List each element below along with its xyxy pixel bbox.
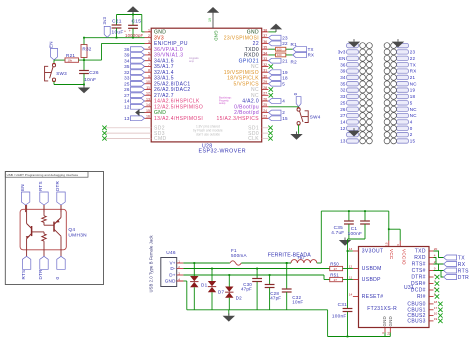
svg-text:15/A2.3/HSPICS: 15/A2.3/HSPICS (216, 116, 259, 122)
svg-text:EN: EN (20, 184, 25, 191)
svg-text:12: 12 (349, 265, 353, 269)
svg-text:6: 6 (148, 57, 150, 61)
svg-text:ESP32-WROVER: ESP32-WROVER (199, 148, 247, 154)
svg-text:13/A2.4/HSPIMOSI: 13/A2.4/HSPIMOSI (154, 116, 203, 122)
svg-text:35: 35 (263, 46, 267, 50)
svg-text:VCCIO: VCCIO (401, 249, 406, 265)
svg-text:VCC: VCC (389, 249, 394, 260)
svg-text:34: 34 (263, 51, 267, 55)
svg-text:19: 19 (282, 70, 288, 75)
svg-text:R1: R1 (291, 42, 298, 47)
svg-text:setup: setup (219, 101, 226, 105)
svg-text:32: 32 (340, 88, 346, 93)
svg-text:16: 16 (146, 115, 150, 119)
svg-text:NC: NC (410, 113, 417, 118)
svg-text:10nF: 10nF (84, 77, 96, 83)
svg-text:D7: D7 (218, 289, 225, 294)
svg-text:39: 39 (340, 69, 346, 74)
svg-text:100nF: 100nF (332, 314, 347, 319)
svg-text:UMH3N: UMH3N (68, 233, 87, 239)
svg-text:35: 35 (340, 81, 346, 86)
svg-text:100: 100 (277, 53, 282, 57)
svg-text:27: 27 (263, 92, 267, 96)
svg-text:2: 2 (282, 110, 285, 115)
svg-text:DCD#: DCD# (411, 288, 426, 294)
svg-text:U46: U46 (166, 250, 176, 256)
svg-text:32: 32 (124, 70, 130, 75)
svg-text:EN: EN (339, 56, 346, 61)
svg-text:10k: 10k (68, 59, 73, 63)
svg-text:10nF: 10nF (292, 300, 303, 305)
svg-text:15: 15 (282, 116, 288, 121)
svg-text:23: 23 (282, 35, 288, 40)
svg-text:500mA: 500mA (231, 253, 247, 258)
svg-text:5: 5 (282, 81, 285, 86)
svg-text:27: 27 (334, 267, 338, 271)
svg-text:30: 30 (263, 74, 267, 78)
svg-text:21: 21 (410, 75, 416, 80)
svg-text:TX: TX (308, 47, 314, 52)
svg-text:GND: GND (214, 31, 219, 41)
svg-text:5: 5 (410, 100, 413, 105)
svg-text:10000pF: 10000pF (125, 33, 144, 38)
svg-text:C21: C21 (112, 19, 122, 25)
svg-text:TX: TX (410, 62, 416, 67)
svg-text:3v3: 3v3 (102, 16, 107, 24)
svg-text:15: 15 (385, 242, 389, 246)
svg-text:27: 27 (124, 93, 130, 98)
svg-text:DTR#: DTR# (411, 275, 425, 281)
svg-text:11: 11 (146, 86, 150, 90)
svg-text:FT231XS-R: FT231XS-R (367, 306, 397, 312)
svg-text:C15: C15 (132, 19, 142, 25)
svg-text:35: 35 (124, 64, 130, 69)
svg-text:23: 23 (410, 50, 416, 55)
svg-text:14: 14 (124, 99, 130, 104)
svg-text:15: 15 (410, 139, 416, 144)
svg-text:C31: C31 (338, 302, 347, 307)
svg-text:27: 27 (340, 113, 346, 118)
svg-text:V+: V+ (169, 261, 175, 266)
svg-text:GND: GND (382, 316, 387, 326)
svg-text:RTS: RTS (458, 268, 469, 274)
svg-text:D+: D+ (169, 273, 176, 278)
svg-text:3V3OUT: 3V3OUT (362, 249, 384, 255)
svg-text:13: 13 (340, 139, 346, 144)
svg-text:10uF: 10uF (112, 30, 124, 36)
svg-text:32: 32 (263, 63, 267, 67)
svg-text:D1: D1 (201, 282, 208, 287)
svg-text:28: 28 (263, 86, 267, 90)
svg-text:NC: NC (410, 81, 417, 86)
svg-text:R2: R2 (291, 60, 298, 65)
svg-text:TXD: TXD (415, 249, 426, 255)
svg-text:36: 36 (124, 47, 130, 52)
svg-text:10: 10 (146, 80, 150, 84)
svg-text:amp: amp (189, 60, 195, 63)
svg-text:100nF: 100nF (348, 231, 363, 236)
svg-text:USB / UART Programming and deb: USB / UART Programming and debugging int… (7, 173, 79, 177)
svg-text:11: 11 (349, 276, 352, 280)
svg-text:8: 8 (148, 69, 150, 73)
svg-text:26: 26 (124, 87, 130, 92)
svg-text:DTR: DTR (55, 180, 60, 191)
svg-text:21: 21 (282, 58, 288, 63)
svg-text:9: 9 (148, 74, 150, 78)
svg-text:100: 100 (277, 47, 282, 51)
svg-text:2: 2 (410, 132, 413, 137)
svg-text:13: 13 (124, 116, 130, 121)
svg-text:0: 0 (410, 126, 413, 131)
svg-text:RI#: RI# (417, 294, 426, 300)
svg-text:GND: GND (388, 316, 393, 326)
svg-text:25: 25 (340, 100, 346, 105)
svg-text:3v3: 3v3 (338, 50, 346, 55)
svg-text:R32: R32 (82, 46, 91, 51)
svg-text:5: 5 (148, 51, 150, 55)
svg-text:CLK: CLK (248, 136, 259, 142)
svg-text:USB 2.0 Type B Female Jack: USB 2.0 Type B Female Jack (148, 234, 153, 292)
svg-text:Q4: Q4 (68, 227, 75, 233)
svg-text:19: 19 (208, 18, 212, 22)
svg-text:1: 1 (148, 28, 150, 32)
svg-text:14: 14 (146, 103, 150, 107)
svg-text:EN: EN (49, 41, 54, 48)
svg-text:27: 27 (334, 278, 338, 282)
svg-text:47pF: 47pF (270, 296, 281, 301)
svg-text:18: 18 (434, 300, 438, 304)
svg-text:R51: R51 (330, 273, 339, 278)
svg-text:C26: C26 (89, 70, 99, 76)
svg-text:36: 36 (263, 40, 267, 44)
svg-text:18: 18 (282, 76, 288, 81)
svg-text:DSR#: DSR# (411, 281, 426, 287)
svg-text:USBDM: USBDM (362, 266, 382, 272)
svg-text:17: 17 (434, 306, 438, 310)
svg-text:26: 26 (340, 107, 346, 112)
svg-text:RTS: RTS (21, 270, 26, 280)
svg-text:24: 24 (263, 109, 267, 113)
svg-text:4: 4 (282, 99, 285, 104)
svg-text:12: 12 (146, 92, 150, 96)
svg-text:CBUS3: CBUS3 (407, 319, 425, 325)
svg-text:+: + (129, 29, 131, 33)
svg-text:FB7: FB7 (298, 256, 305, 260)
svg-text:13: 13 (349, 247, 353, 251)
svg-text:SW3: SW3 (56, 71, 67, 76)
svg-text:don't use outside: don't use outside (196, 133, 220, 137)
svg-text:15: 15 (146, 109, 150, 113)
svg-text:26: 26 (263, 97, 267, 101)
svg-text:3: 3 (396, 244, 400, 246)
svg-text:RTS: RTS (38, 181, 43, 191)
svg-text:RESET#: RESET# (362, 294, 384, 300)
svg-text:RX: RX (458, 262, 466, 268)
svg-text:GND: GND (165, 279, 176, 284)
svg-text:13: 13 (146, 97, 150, 101)
svg-text:0: 0 (55, 277, 60, 280)
svg-text:34: 34 (124, 58, 130, 63)
svg-text:4.7uF: 4.7uF (331, 230, 344, 235)
svg-text:RX: RX (308, 53, 315, 58)
svg-text:18: 18 (410, 94, 416, 99)
svg-text:47pF: 47pF (241, 287, 252, 292)
svg-text:DTR: DTR (38, 269, 43, 280)
svg-text:37: 37 (263, 34, 267, 38)
svg-text:2: 2 (148, 34, 150, 38)
svg-text:22: 22 (410, 56, 416, 61)
svg-text:19: 19 (434, 317, 438, 321)
svg-text:NC: NC (410, 107, 417, 112)
svg-text:FERRITE-BEADA: FERRITE-BEADA (268, 252, 311, 258)
svg-text:34: 34 (340, 75, 346, 80)
svg-text:4: 4 (410, 120, 413, 125)
svg-text:RX: RX (410, 69, 417, 74)
svg-text:12: 12 (124, 104, 130, 109)
svg-text:4: 4 (148, 46, 150, 50)
svg-text:29: 29 (263, 80, 267, 84)
svg-text:7: 7 (148, 63, 150, 67)
svg-text:38: 38 (263, 28, 267, 32)
svg-text:RXD: RXD (414, 255, 426, 261)
svg-text:D-: D- (170, 266, 176, 271)
svg-text:CTS#: CTS# (412, 268, 426, 274)
svg-text:3: 3 (148, 40, 150, 44)
svg-text:TX: TX (458, 255, 465, 261)
svg-text:25: 25 (124, 81, 130, 86)
svg-text:23: 23 (263, 115, 267, 119)
svg-text:19: 19 (410, 88, 416, 93)
svg-text:D2: D2 (236, 295, 243, 300)
svg-text:DTR: DTR (458, 275, 469, 281)
svg-text:25: 25 (263, 103, 267, 107)
svg-text:31: 31 (263, 69, 267, 73)
svg-text:33: 33 (124, 76, 130, 81)
svg-text:CMD: CMD (154, 136, 167, 142)
svg-text:16: 16 (387, 331, 391, 335)
svg-text:39: 39 (124, 53, 130, 58)
svg-text:R21: R21 (66, 53, 75, 58)
svg-text:33: 33 (340, 94, 346, 99)
svg-text:14: 14 (340, 120, 346, 125)
svg-text:12: 12 (340, 126, 346, 131)
svg-text:33: 33 (263, 57, 267, 61)
svg-text:22: 22 (282, 41, 288, 46)
svg-text:10: 10 (434, 312, 438, 316)
svg-text:14: 14 (349, 293, 353, 297)
svg-text:USBDP: USBDP (362, 277, 381, 283)
svg-text:6: 6 (381, 332, 385, 334)
svg-text:SW4: SW4 (310, 114, 321, 119)
svg-text:RTS#: RTS# (412, 262, 426, 268)
svg-text:R50: R50 (330, 262, 339, 267)
svg-text:36: 36 (340, 62, 346, 67)
